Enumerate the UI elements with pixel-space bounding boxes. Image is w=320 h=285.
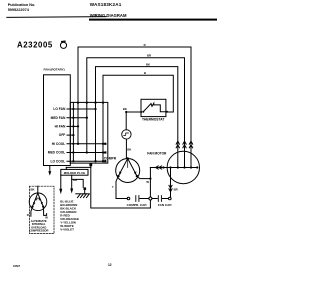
svg-text:FAN (ROTARY): FAN (ROTARY) [44,67,65,71]
svg-text:LO FAN: LO FAN [53,107,66,111]
svg-text:THERMOSTAT: THERMOSTAT [142,118,164,122]
svg-text:Y: Y [112,185,114,189]
svg-text:FAN CAP.: FAN CAP. [158,203,172,207]
svg-text:COMPR: COMPR [104,157,117,161]
svg-text:BK: BK [146,63,150,67]
svg-text:W: W [146,180,149,184]
svg-text:10M7: 10M7 [13,264,20,268]
svg-text:R: R [27,213,29,217]
svg-text:W: W [45,216,48,220]
svg-text:COMPR. CAP.: COMPR. CAP. [127,203,147,207]
svg-text:BR: BR [147,54,151,58]
svg-text:HI COOL: HI COOL [52,142,66,146]
svg-text:BK: BK [123,107,127,111]
svg-text:HI FAN: HI FAN [55,125,66,129]
svg-text:Publication No.: Publication No. [8,3,36,7]
svg-text:B: B [144,71,146,75]
svg-text:R: R [144,43,146,47]
svg-text:V-VIOLET: V-VIOLET [60,227,74,231]
svg-text:WAS183K2A1: WAS183K2A1 [90,2,122,7]
svg-text:MED COOL: MED COOL [48,151,66,155]
svg-text:BK: BK [127,148,131,152]
svg-text:WIRING DIAGRAM: WIRING DIAGRAM [90,13,127,18]
svg-text:5995222074: 5995222074 [8,8,30,12]
svg-text:MOLDED PLUG: MOLDED PLUG [64,171,86,175]
svg-text:MED FAN: MED FAN [51,116,66,120]
svg-text:OFF: OFF [59,133,66,137]
svg-text:BK: BK [31,187,35,191]
svg-text:COMPRESSOR: COMPRESSOR [29,228,48,232]
svg-text:LO COOL: LO COOL [50,159,65,163]
svg-text:12: 12 [108,263,112,267]
svg-text:GR: GR [73,178,77,182]
svg-text:A232005: A232005 [17,41,53,50]
svg-text:BR: BR [174,188,178,192]
svg-text:FAN MOTOR: FAN MOTOR [147,151,167,155]
